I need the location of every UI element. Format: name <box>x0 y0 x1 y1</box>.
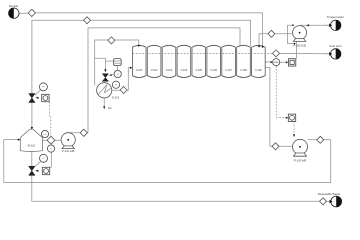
diamond P-101 discharge <box>80 129 87 136</box>
condensate arrow hps <box>103 106 112 110</box>
diamond P-103 suction <box>272 143 279 150</box>
wire V-109 to P-103 suction <box>265 68 292 147</box>
vessel vapor equalization dashed line <box>133 53 273 55</box>
balloon PI <box>271 59 280 66</box>
svg-text:E-101: E-101 <box>112 95 119 99</box>
vessel V-105 <box>192 45 206 77</box>
svg-text:P-101 A/B: P-101 A/B <box>62 149 74 153</box>
balloon TI <box>109 70 121 77</box>
svg-text:-: - <box>56 167 57 170</box>
valve LV-1 (top control valve on feed to tank) <box>29 94 39 103</box>
interlock square LSL (above P-103) <box>286 114 296 137</box>
connector source Sample <box>9 4 19 18</box>
svg-text:P-102 A/B: P-102 A/B <box>294 43 306 47</box>
vessel V-101 <box>132 45 146 77</box>
wire waste connector stub <box>327 200 331 202</box>
wire treated stub <box>325 24 331 26</box>
valve LV-2 (tank bottom to waste) <box>29 166 39 175</box>
svg-text:Treated water: Treated water <box>327 15 344 19</box>
svg-text:P-103 A/B: P-103 A/B <box>294 158 306 162</box>
diamond tank outlet <box>47 136 55 144</box>
wire P-101 discharge <box>68 132 88 134</box>
tank M-101 <box>20 129 42 152</box>
junction dot bracket bottom <box>294 43 296 45</box>
wire source stub <box>19 12 28 14</box>
wire L3 recycle header y=27.9 <box>88 28 240 133</box>
arrow on treated water line <box>306 24 309 26</box>
junction dot bracket top <box>292 24 294 26</box>
diamond P-103 discharge <box>317 136 324 143</box>
interlock square UC (PI to square) <box>272 59 296 66</box>
svg-text:V-109: V-109 <box>255 69 262 72</box>
vessel V-104 <box>177 45 191 77</box>
wire P-102 bracket <box>288 25 295 43</box>
connector Fuel Vent <box>329 44 341 59</box>
svg-text:V-103: V-103 <box>166 69 173 72</box>
signal PI to interlock square dashed <box>276 66 288 118</box>
wire L2 feed header y=20.3 <box>32 20 251 93</box>
svg-text:V-106: V-106 <box>210 69 217 72</box>
svg-text:V-108: V-108 <box>240 69 247 72</box>
vessel V-102 <box>147 45 161 77</box>
vessel V-107 <box>222 45 236 77</box>
connector Disposable Waste <box>318 192 342 207</box>
wire tank outlet to waste <box>32 151 320 202</box>
wire drum link <box>105 60 113 62</box>
balloon LG (tank) <box>41 130 48 137</box>
balloon LI (tank) <box>47 145 54 152</box>
svg-text:V-104: V-104 <box>181 69 188 72</box>
balloon TT <box>112 81 119 88</box>
diamond PV (fuel vent) <box>273 50 280 57</box>
condensate pot drum <box>114 59 122 71</box>
junction dot V-101 top <box>138 45 140 47</box>
wire fuel stub <box>325 53 331 55</box>
wire PI tap <box>265 61 272 63</box>
balloon FT-1 <box>35 83 47 96</box>
controller square FC-1 <box>42 94 49 101</box>
wire tank to P-101 <box>42 139 61 141</box>
pump P-101 A/B <box>61 133 75 153</box>
signal LI to LC-2 <box>50 152 57 169</box>
arrow into tank roof <box>31 127 33 130</box>
diamond D0 (source) <box>28 9 35 16</box>
wire P-102 stub <box>296 42 298 59</box>
wire tank feed drop <box>31 103 33 128</box>
arrow into V-101 side <box>130 67 132 69</box>
svg-text:Sample: Sample <box>9 4 19 8</box>
wire P-103 discharge <box>4 140 331 183</box>
wire E-101 condensate <box>103 98 105 107</box>
diamond D5 (E-101 outlet) <box>120 87 127 94</box>
wire steam jog to valve <box>95 58 106 69</box>
connector Treated water <box>327 15 344 30</box>
pump P-103 A/B <box>293 139 308 162</box>
wire L1 source header y=12.9 <box>35 13 262 46</box>
diamond P-102 suction <box>268 30 275 37</box>
diamond D4 (branch) <box>108 37 118 50</box>
vessel V-106 <box>207 45 221 77</box>
wire E-101 outlet to V-101 <box>112 68 132 90</box>
balloon LT-2 <box>35 154 47 166</box>
svg-text:LG: LG <box>44 134 47 136</box>
diamond waste <box>320 198 327 205</box>
wire P-102 discharge to treated water <box>300 24 330 26</box>
wire fuel vent line <box>280 53 331 55</box>
svg-text:V-107: V-107 <box>225 69 232 72</box>
wire P-102 suction <box>259 34 293 46</box>
heat exchanger E-101 <box>97 83 120 100</box>
arrow into tank left nozzle <box>18 139 21 141</box>
controller square LC-2 <box>42 167 49 174</box>
svg-text:M-101: M-101 <box>28 144 36 148</box>
svg-text:V-105: V-105 <box>196 69 203 72</box>
vessel V-103 <box>162 45 176 77</box>
svg-text:Disposable Waste: Disposable Waste <box>318 192 341 196</box>
wire L4 branch y=40 <box>95 40 139 86</box>
signal LC1 dashed drop <box>50 102 51 137</box>
svg-text:V-102: V-102 <box>151 69 158 72</box>
pump P-102 A/B <box>293 26 307 48</box>
steam valve TV (above E-101) <box>102 69 108 81</box>
diamond D2 (feed header) <box>84 17 91 24</box>
svg-text:Fuel Vent: Fuel Vent <box>330 44 342 48</box>
vessel V-109 <box>252 45 266 77</box>
vessel V-108 <box>237 45 251 77</box>
junction dot V-109 top suction <box>258 46 260 48</box>
junction dot V-109 top L1 <box>262 46 264 48</box>
signal interlock to P-103 dashed <box>293 121 295 134</box>
svg-text:V-101: V-101 <box>136 69 143 72</box>
